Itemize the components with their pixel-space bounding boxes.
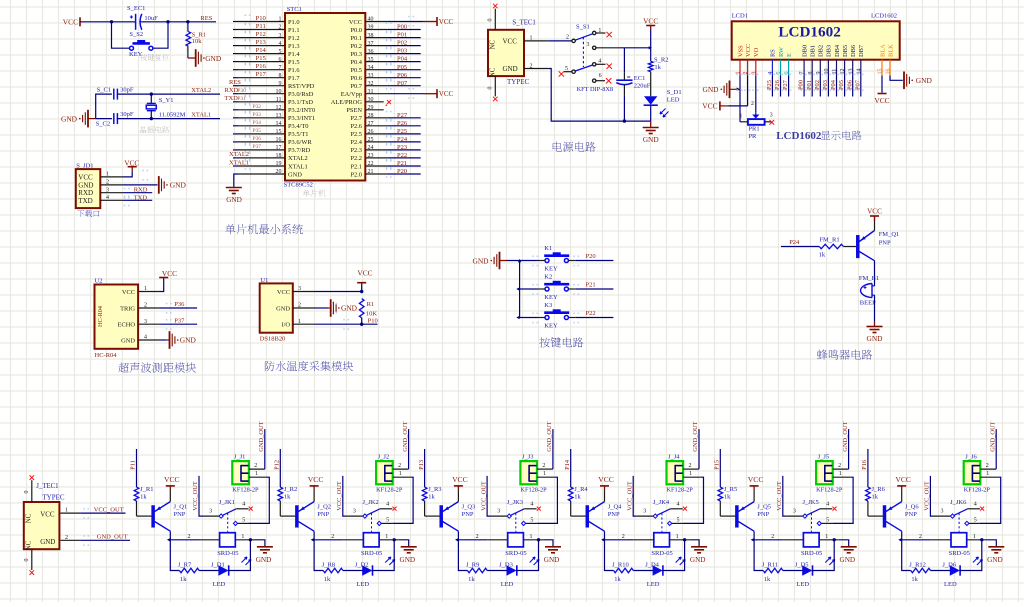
svg-text:DB3: DB3 — [826, 45, 833, 57]
svg-text:1k: 1k — [324, 576, 331, 583]
wire collector node — [311, 531, 343, 570]
svg-text:J_Q5: J_Q5 — [757, 503, 771, 510]
svg-text:2: 2 — [65, 535, 68, 541]
svg-text:KF128-2P: KF128-2P — [520, 486, 547, 493]
svg-text:J_D5: J_D5 — [795, 562, 809, 569]
pin 11 DB4 of LCD1 — [832, 44, 841, 75]
svg-text:P3.4/T0: P3.4/T0 — [288, 123, 308, 130]
svg-text:1: 1 — [825, 534, 828, 540]
svg-text:DB1: DB1 — [810, 45, 817, 57]
net label P32 — [253, 104, 262, 110]
svg-text:RES: RES — [229, 79, 241, 86]
connector S_TEC1 TYPEC — [488, 20, 536, 86]
net label P37 — [253, 144, 262, 150]
svg-text:P37: P37 — [174, 317, 185, 324]
svg-text:J_TEC1: J_TEC1 — [36, 483, 58, 490]
selection dots MCU rows — [245, 15, 415, 178]
svg-text:J_J2: J_J2 — [378, 454, 390, 461]
svg-text:S_S1: S_S1 — [576, 24, 590, 31]
no-ERC contact pin4 — [393, 507, 397, 511]
net label P20 — [586, 253, 596, 260]
svg-text:J_Q1: J_Q1 — [174, 503, 188, 510]
net label P12 — [256, 31, 266, 38]
svg-text:P3.0/RxD: P3.0/RxD — [288, 91, 314, 98]
svg-text:HC-R04: HC-R04 — [97, 306, 104, 327]
pin 2 TRIG of U2 — [120, 303, 160, 313]
ground GND (U1) — [328, 299, 358, 317]
svg-text:P20: P20 — [586, 253, 596, 260]
svg-text:VCC: VCC — [439, 90, 454, 98]
svg-text:ECHO: ECHO — [118, 322, 136, 329]
pin 38 P0.1 (right) — [350, 33, 420, 42]
pin 39 P0.0 (right) — [350, 25, 420, 34]
pin 3 VCC of U1 — [277, 286, 315, 296]
svg-text:DB4: DB4 — [834, 44, 841, 57]
pin 15 BLA of LCD1 — [878, 44, 887, 76]
svg-text:S_R2: S_R2 — [654, 57, 668, 64]
wire LED to relay pin1 — [812, 540, 834, 571]
svg-text:VCC_OUT: VCC_OUT — [192, 481, 199, 511]
svg-text:VCC: VCC — [40, 511, 55, 519]
pin 7 DB0 of LCD1 — [800, 45, 809, 76]
svg-text:1k: 1k — [140, 493, 147, 500]
svg-text:10uF: 10uF — [144, 15, 158, 22]
svg-text:P3.7/RD: P3.7/RD — [288, 147, 311, 154]
svg-text:LED: LED — [501, 581, 514, 588]
svg-text:SRD-05: SRD-05 — [949, 550, 970, 557]
pin 0 top S_TEC1 — [488, 4, 498, 30]
svg-text:VCC: VCC — [702, 102, 717, 111]
svg-text:RES: RES — [200, 15, 212, 22]
relay contact J_JK3 — [491, 499, 537, 532]
wire buzzer to GND — [874, 295, 876, 321]
resistor J_R5 1k — [718, 486, 737, 501]
wire keys bus — [507, 259, 521, 318]
wire BLK to GND — [890, 76, 903, 81]
svg-text:P13: P13 — [418, 460, 425, 470]
svg-text:2: 2 — [106, 180, 109, 186]
svg-text:FM_B1: FM_B1 — [859, 275, 879, 282]
svg-text:DB7: DB7 — [858, 44, 865, 57]
svg-text:VCC: VCC — [874, 96, 889, 105]
pin 2 VCC of LCD1 — [743, 44, 752, 76]
svg-text:BEEP: BEEP — [860, 300, 876, 307]
svg-text:P17: P17 — [256, 71, 267, 78]
svg-text:P37: P37 — [253, 144, 262, 150]
pin 29 PSEN (right) — [346, 105, 383, 114]
net label P24 — [397, 136, 408, 143]
svg-text:VCC_OUT: VCC_OUT — [776, 481, 783, 511]
svg-text:P10: P10 — [368, 317, 378, 324]
title 单片机最小系统 — [225, 224, 303, 234]
net label P13 — [418, 460, 425, 470]
wire relay pin1 to GND — [537, 538, 553, 546]
svg-text:2: 2 — [986, 463, 989, 469]
resistor J_R12 1k — [909, 562, 930, 583]
svg-text:LCD1602: LCD1602 — [776, 130, 822, 142]
net label P16 — [256, 63, 267, 70]
svg-text:P1.1: P1.1 — [288, 27, 300, 34]
wire LED to relay pin1 — [959, 540, 981, 571]
svg-text:LED: LED — [667, 97, 680, 104]
relay coil SRD-05 (unit 4) — [622, 533, 690, 558]
net label RXD + wire — [124, 187, 153, 194]
svg-text:1k: 1k — [654, 64, 661, 71]
svg-text:EC1: EC1 — [634, 75, 646, 82]
relay contact J_JK5 — [786, 499, 832, 532]
ground GND (reset) — [188, 49, 222, 67]
ground GND (U2) — [160, 331, 196, 349]
ground GND (unit 3) — [544, 547, 561, 564]
IC STC1 body — [285, 6, 365, 180]
net label P26 — [397, 120, 408, 127]
svg-text:K2: K2 — [544, 274, 552, 281]
resistor J_R7 1k — [178, 562, 199, 583]
wire relay pin1 to GND — [833, 538, 849, 546]
title LCD1602显示电路 — [776, 130, 822, 142]
svg-text:3: 3 — [793, 509, 796, 515]
svg-text:3: 3 — [144, 319, 147, 325]
net label P04 — [397, 56, 408, 63]
no-ERC contact pin4 — [833, 507, 837, 511]
svg-text:J_J3: J_J3 — [522, 454, 534, 461]
no-ERC pin4 switch — [596, 64, 612, 69]
net label P22 — [586, 310, 596, 317]
label 单片机 — [303, 190, 326, 197]
push button K3 — [520, 302, 614, 330]
IC U2 HC-R04 — [95, 278, 139, 359]
svg-text:GND: GND — [180, 336, 197, 345]
svg-text:PNP: PNP — [317, 511, 329, 518]
svg-text:SRD-05: SRD-05 — [801, 550, 822, 557]
svg-text:P16: P16 — [256, 63, 267, 70]
svg-text:P27: P27 — [782, 79, 789, 90]
svg-text:4: 4 — [242, 502, 245, 508]
svg-text:3: 3 — [587, 42, 590, 48]
svg-text:4: 4 — [144, 335, 147, 341]
svg-text:3: 3 — [770, 112, 773, 118]
wire collector node — [751, 531, 783, 570]
svg-text:GND: GND — [472, 257, 489, 266]
resistor J_R11 1k — [762, 562, 783, 583]
svg-text:KF128-2P: KF128-2P — [816, 486, 843, 493]
wire BLA to VCC — [881, 76, 883, 93]
ground GND (LCD left) — [702, 81, 738, 99]
power port VCC (pin40) — [423, 17, 454, 26]
svg-text:15: 15 — [878, 69, 884, 75]
svg-text:5: 5 — [677, 517, 680, 523]
svg-text:LCD1602: LCD1602 — [778, 23, 840, 40]
pin 31 EA/Vpp (right) — [341, 89, 423, 98]
svg-text:1: 1 — [530, 534, 533, 540]
svg-text:FM_Q1: FM_Q1 — [879, 231, 900, 238]
pin 34 P0.5 (right) — [350, 65, 420, 74]
resistor J_R6 1k — [866, 486, 886, 501]
wire LED to relay pin1 — [372, 540, 394, 571]
svg-text:2: 2 — [771, 534, 774, 540]
pin 32 P0.7 (right) — [350, 81, 420, 90]
terminal J_J6 KF128-2P — [964, 454, 998, 494]
svg-text:2: 2 — [542, 463, 545, 469]
label 下载口 — [77, 210, 99, 217]
net label P05 — [397, 64, 407, 71]
net label P20 — [397, 168, 407, 175]
svg-text:P0.3: P0.3 — [350, 51, 362, 58]
svg-text:P06: P06 — [846, 80, 853, 90]
svg-text:P36: P36 — [253, 136, 262, 142]
IC LCD1 body — [732, 13, 900, 60]
svg-text:GND: GND — [544, 556, 560, 564]
svg-text:3: 3 — [941, 509, 944, 515]
svg-text:1k: 1k — [574, 493, 581, 500]
power port VCC (U1) — [357, 269, 372, 292]
net label P14 — [564, 459, 571, 470]
no-ERC contact pin4 — [537, 507, 541, 511]
svg-text:LED: LED — [944, 581, 957, 588]
svg-text:1: 1 — [241, 534, 244, 540]
svg-text:220uF: 220uF — [634, 83, 651, 90]
svg-text:1k: 1k — [180, 576, 187, 583]
svg-text:GND_OUT: GND_OUT — [842, 421, 849, 451]
relay contact J_JK4 — [637, 499, 683, 532]
svg-text:P11: P11 — [130, 460, 137, 470]
svg-text:P12: P12 — [256, 31, 266, 38]
svg-text:P2.6: P2.6 — [350, 123, 362, 130]
no-ERC pin5 switch — [559, 71, 572, 76]
net label P00 (LCD) — [798, 80, 805, 90]
svg-text:5: 5 — [530, 517, 533, 523]
pin 8 DB1 of LCD1 — [808, 45, 817, 76]
svg-text:SRD-05: SRD-05 — [651, 550, 672, 557]
no-ERC PR1 pin3 — [770, 120, 775, 125]
svg-text:J_JK3: J_JK3 — [507, 499, 523, 506]
capacitor S_C2 30pF — [96, 111, 134, 127]
power port VCC (pin31) — [423, 89, 454, 98]
wire GND_OUT (unit 2) — [402, 421, 409, 469]
svg-text:KF128-2P: KF128-2P — [667, 486, 694, 493]
potentiometer PR1 — [740, 101, 773, 140]
wire VCC row — [315, 290, 363, 293]
pin 25 P2.4 (right) — [350, 137, 420, 146]
svg-text:P2.7: P2.7 — [350, 115, 362, 122]
svg-text:P00: P00 — [798, 80, 805, 90]
wire resistor to base — [571, 501, 586, 516]
svg-text:P0.0: P0.0 — [350, 27, 362, 34]
svg-text:TXD: TXD — [78, 197, 92, 205]
svg-text:2: 2 — [331, 534, 334, 540]
key switch S_S2 — [112, 22, 169, 58]
svg-text:K1: K1 — [544, 245, 552, 252]
svg-text:PR: PR — [748, 133, 757, 140]
wire VCC_OUT (unit 3) — [480, 476, 490, 516]
svg-text:KEY: KEY — [544, 323, 558, 330]
svg-text:P2.3: P2.3 — [350, 147, 362, 154]
svg-text:NC: NC — [26, 513, 33, 523]
pin 12 DB5 of LCD1 — [840, 45, 849, 76]
svg-text:P20: P20 — [397, 168, 407, 175]
svg-text:30pF: 30pF — [120, 111, 134, 118]
terminal J_J3 KF128-2P — [520, 454, 554, 494]
net label P35 — [253, 128, 262, 134]
wire contact pin5 to terminal — [526, 477, 558, 523]
svg-text:PNP: PNP — [757, 511, 769, 518]
net label TXD + wire — [124, 194, 153, 201]
svg-text:VCC: VCC — [164, 475, 180, 484]
svg-text:S_C2: S_C2 — [96, 120, 110, 127]
no-ERC contact pin4 — [683, 507, 687, 511]
svg-text:GND: GND — [61, 114, 78, 123]
wire contact pin5 to terminal — [969, 477, 1001, 523]
transistor J_Q6 PNP — [883, 502, 919, 532]
pin 0 top J_TEC1 — [24, 475, 34, 502]
svg-text:1k: 1k — [911, 576, 918, 583]
svg-text:LCD1602: LCD1602 — [871, 13, 897, 20]
svg-text:J_R11: J_R11 — [762, 562, 778, 569]
svg-text:J_Q4: J_Q4 — [608, 503, 622, 510]
svg-text:PR1: PR1 — [748, 125, 759, 132]
svg-text:GND: GND — [400, 556, 416, 564]
net label P01 — [397, 32, 407, 39]
svg-text:5: 5 — [386, 517, 389, 523]
svg-text:BLA: BLA — [879, 44, 886, 57]
label 晶振电路 — [140, 126, 169, 133]
pin 14 P3.4/T0 (left) — [233, 121, 308, 130]
net label P01 (LCD) — [806, 80, 813, 90]
svg-text:P1.5: P1.5 — [288, 59, 300, 66]
resistor J_R4 1k — [568, 486, 588, 501]
svg-text:J_J4: J_J4 — [668, 454, 680, 461]
pin 6 P1.5 (left) — [233, 57, 300, 66]
ground GND (keys) — [472, 252, 507, 270]
pin 26 P2.5 (right) — [350, 129, 420, 138]
svg-text:GND: GND — [702, 85, 719, 94]
transistor J_Q3 PNP — [440, 502, 476, 532]
net label P15 — [256, 55, 267, 62]
wire relay pin1 to GND — [249, 538, 265, 546]
svg-text:3: 3 — [298, 286, 301, 292]
wire resistor to base — [868, 501, 883, 516]
svg-text:P22: P22 — [397, 152, 407, 159]
svg-text:P25: P25 — [766, 80, 773, 90]
pin 27 P2.6 (right) — [350, 121, 420, 130]
svg-text:GND: GND — [288, 171, 302, 178]
wire VCC_OUT (unit 5) — [776, 476, 786, 516]
pin 4 TXD of S_JD1 — [78, 195, 123, 205]
svg-text:P03: P03 — [397, 48, 407, 55]
transistor J_Q2 PNP — [295, 502, 331, 532]
net label P04 (LCD) — [830, 79, 837, 90]
resistor S_R1 10k — [186, 22, 206, 58]
power port VCC (unit 1) — [164, 475, 180, 502]
svg-text:FM_R1: FM_R1 — [819, 237, 839, 244]
net label RXD P30 — [225, 87, 247, 94]
wire resistor to base — [137, 501, 152, 516]
pin 2 P1.1 (left) — [233, 25, 300, 34]
svg-text:VCC: VCC — [452, 475, 468, 484]
svg-text:GND_OUT: GND_OUT — [546, 421, 553, 451]
ground GND (power circuit) — [643, 121, 660, 144]
svg-text:P0.6: P0.6 — [350, 75, 362, 82]
wire GND_OUT (unit 5) — [842, 421, 849, 469]
no-ERC contact pin4 — [249, 507, 253, 511]
svg-text:P2.4: P2.4 — [350, 139, 362, 146]
svg-text:P2.2: P2.2 — [350, 155, 362, 162]
svg-text:PNP: PNP — [879, 239, 891, 246]
svg-text:GND: GND — [643, 135, 660, 144]
pin 12 P3.2/INT0 (left) — [233, 105, 315, 114]
svg-text:1: 1 — [676, 534, 679, 540]
pin 1 I/O of U1 — [281, 319, 315, 329]
net label P15 — [714, 460, 721, 470]
svg-text:J_Q6: J_Q6 — [905, 503, 919, 510]
svg-text:J_D2: J_D2 — [355, 562, 369, 569]
wire pin2 GND rail — [524, 63, 651, 123]
svg-text:1: 1 — [255, 471, 258, 477]
selection dots S_JD1 — [124, 170, 148, 207]
svg-text:VCC: VCC — [78, 173, 93, 181]
wire LED to relay pin1 — [228, 540, 250, 571]
resistor J_R3 1k — [422, 486, 441, 501]
wire GND_OUT (unit 1) — [258, 421, 265, 469]
svg-text:S_TEC1: S_TEC1 — [512, 20, 535, 27]
pin 22 P2.1 (right) — [350, 161, 420, 170]
svg-text:J_Q2: J_Q2 — [317, 503, 331, 510]
wire GND_OUT (unit 4) — [692, 421, 699, 469]
svg-text:1: 1 — [399, 471, 402, 477]
LED S_D1 — [644, 72, 682, 121]
wire control input P15 — [719, 449, 721, 487]
svg-text:P06: P06 — [397, 72, 408, 79]
svg-text:P23: P23 — [397, 144, 407, 151]
svg-text:0: 0 — [488, 19, 494, 22]
relay coil SRD-05 (unit 1) — [188, 533, 256, 558]
svg-text:2: 2 — [751, 101, 754, 107]
relay contact J_JK1 — [203, 499, 249, 532]
pin 13 P3.3/INT1 (left) — [233, 113, 315, 122]
net label P07 (LCD) — [854, 79, 861, 90]
power port VCC (backlight) — [874, 94, 889, 106]
svg-text:P24: P24 — [397, 136, 408, 143]
svg-text:P3.6/WR: P3.6/WR — [288, 139, 312, 146]
title 超声波测距模块 — [118, 363, 196, 373]
svg-text:VCC: VCC — [867, 208, 882, 216]
svg-text:NC: NC — [26, 540, 33, 550]
svg-text:GND: GND — [256, 556, 272, 564]
svg-text:VCC: VCC — [503, 38, 518, 46]
power port VCC (U2) — [159, 269, 177, 292]
wire collector node — [167, 531, 199, 570]
svg-text:VCC_OUT: VCC_OUT — [626, 481, 633, 511]
title 按键电路 — [539, 337, 583, 347]
svg-text:2: 2 — [144, 303, 147, 309]
svg-text:GND: GND — [40, 538, 55, 546]
wire resistor to base — [280, 501, 295, 516]
svg-text:P01: P01 — [397, 32, 407, 39]
wire VCC_OUT (unit 4) — [626, 476, 636, 516]
wire collector node — [898, 531, 930, 570]
svg-text:P24: P24 — [789, 239, 800, 246]
svg-text:1: 1 — [973, 534, 976, 540]
power port VCC (buzzer) — [867, 208, 882, 231]
svg-text:SRD-05: SRD-05 — [505, 550, 526, 557]
svg-text:3: 3 — [209, 509, 212, 515]
svg-text:LED: LED — [356, 581, 369, 588]
ground GND (unit 6) — [987, 547, 1004, 564]
wire LED to relay pin1 — [662, 540, 684, 571]
svg-text:P1.4: P1.4 — [288, 51, 300, 58]
svg-text:J_R8: J_R8 — [322, 562, 335, 569]
wire relay pin1 to GND — [683, 538, 699, 546]
